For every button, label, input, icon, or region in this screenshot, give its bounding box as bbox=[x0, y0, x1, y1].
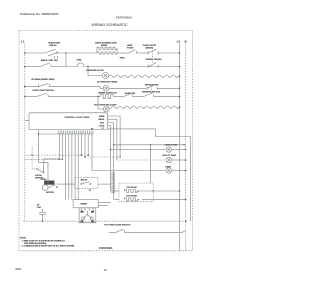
pin stubs connector block bbox=[82, 208, 94, 211]
wire elements box right bottom bbox=[153, 198, 185, 200]
svg-text:CAP: CAP bbox=[37, 206, 42, 209]
switch bake relay bbox=[45, 49, 58, 59]
svg-text:BAKE: BAKE bbox=[99, 115, 105, 118]
component buzzer block bbox=[44, 181, 54, 185]
elements box two resistors bbox=[119, 183, 153, 202]
svg-text:BROIL UNIT SW: BROIL UNIT SW bbox=[41, 60, 59, 62]
switch infinite RF bbox=[147, 85, 157, 90]
switch oven door bbox=[109, 229, 186, 232]
node pin3 N junction bbox=[183, 144, 185, 146]
contact marks connector block bbox=[81, 211, 95, 222]
node wavy2 L2 junction bbox=[179, 106, 181, 108]
wire row2 right bbox=[84, 66, 180, 68]
svg-text:MOTOR: MOTOR bbox=[46, 192, 54, 194]
switch row3 bbox=[39, 83, 50, 87]
svg-text:AT REAR (RIGHT SIDE): AT REAR (RIGHT SIDE) bbox=[31, 78, 54, 81]
op-amp controller EOC box bbox=[29, 113, 108, 130]
wire comb drop left b bbox=[61, 134, 63, 159]
wire row4 left bbox=[25, 95, 37, 97]
wire oven light 1 right bbox=[172, 149, 186, 151]
thermal cutout row2 bbox=[78, 63, 84, 67]
node row2 L1 junction bbox=[24, 66, 26, 68]
wire comb drop right b bbox=[84, 134, 86, 157]
switch limit thermostat bbox=[129, 50, 136, 54]
wire timer out a bbox=[98, 202, 111, 204]
wire comb drop right a bbox=[80, 134, 82, 155]
switch broil relay bbox=[40, 63, 51, 67]
wire vertical feeder bbox=[150, 145, 152, 183]
svg-text:AT REAR (RT SIDE): AT REAR (RT SIDE) bbox=[97, 80, 118, 83]
lamp cooktop light 3 bbox=[166, 168, 171, 173]
svg-text:LOCK: LOCK bbox=[99, 126, 105, 128]
wire comb drop right c bbox=[92, 134, 166, 171]
wire row3 to bus bbox=[157, 87, 179, 89]
wire row4 mid2 bbox=[113, 95, 124, 97]
wire row4 right bbox=[154, 95, 180, 97]
wire elements box left top bbox=[110, 190, 119, 192]
wire bottom dashed bbox=[23, 220, 186, 222]
wire row3 left bbox=[25, 86, 39, 88]
svg-text:LIGHT, OVEN: LIGHT, OVEN bbox=[165, 145, 178, 147]
N bus bbox=[185, 44, 187, 251]
svg-text:6/04: 6/04 bbox=[15, 267, 21, 271]
svg-text:TIMER: TIMER bbox=[80, 203, 87, 205]
svg-text:FEF375ASJ: FEF375ASJ bbox=[116, 15, 133, 19]
wire comb bundle 1 bbox=[65, 134, 67, 200]
wire row1 mid2 bbox=[117, 52, 129, 54]
wire comb bundle 2 bbox=[68, 134, 70, 200]
svg-text:F302304: F302304 bbox=[99, 246, 113, 250]
wire lamp1 drop bbox=[88, 67, 102, 76]
relay box dashed bbox=[75, 177, 98, 188]
wire comb drop right b2 bbox=[87, 134, 89, 155]
wire comb bundle 4 bbox=[74, 134, 76, 200]
svg-text:SW & LT ASSY: SW & LT ASSY bbox=[162, 154, 177, 157]
wire lamp3 to wavy bbox=[109, 107, 111, 109]
svg-text:(BAKE): (BAKE) bbox=[146, 46, 154, 49]
svg-text:2T65: 2T65 bbox=[77, 59, 83, 61]
svg-text:DLB: DLB bbox=[100, 122, 105, 124]
switch oven tstat bbox=[148, 49, 158, 54]
svg-text:L1: L1 bbox=[21, 40, 25, 44]
lamp indicator 2 bbox=[103, 85, 109, 91]
wire row1 mid3 bbox=[136, 52, 148, 54]
wire row1 mid bbox=[58, 52, 98, 54]
node lamp1 drop junction bbox=[87, 66, 88, 67]
node elements right junction 2 bbox=[185, 199, 187, 201]
switch door latch bbox=[36, 159, 44, 173]
wire row4 mid3 bbox=[132, 95, 144, 97]
wire row2 left bbox=[25, 66, 40, 68]
svg-text:UNIT WIRE (AS SHOWN): UNIT WIRE (AS SHOWN) bbox=[24, 242, 46, 245]
lamp oven light 2 bbox=[166, 157, 171, 162]
svg-text:2T60: 2T60 bbox=[120, 57, 126, 59]
svg-text:BOT ELEM: BOT ELEM bbox=[126, 195, 137, 197]
svg-text:L2: L2 bbox=[177, 40, 181, 44]
node wavy1 L2 junction bbox=[179, 75, 181, 77]
wire row1 left bbox=[25, 52, 45, 54]
node dist junction c bbox=[59, 158, 61, 160]
node oven light1 N junction bbox=[185, 149, 187, 151]
wire elements left vertical bbox=[109, 150, 111, 192]
wire lamp3 lead bbox=[98, 96, 103, 109]
link infinite switch poles bbox=[151, 86, 153, 94]
svg-text:2. ELEMENTS ARE A RATED 240V O: 2. ELEMENTS ARE A RATED 240V OR ALL WATT… bbox=[22, 245, 75, 248]
wire drop row1 to row2 bbox=[65, 53, 67, 67]
resistor bake element (two sections) bbox=[97, 47, 117, 54]
connector P2 comb vertical bbox=[111, 172, 114, 194]
wire row3 right bbox=[50, 86, 101, 88]
node row2 L2 junction bbox=[179, 66, 181, 68]
wire comb left lead bbox=[39, 133, 59, 135]
wire inside elements box joins bbox=[136, 191, 153, 199]
node row3 L2 junction bbox=[179, 88, 181, 90]
svg-text:Publication No. 5995419347: Publication No. 5995419347 bbox=[20, 12, 59, 16]
node capacitor bottom junction bbox=[42, 220, 44, 222]
connector block under timer bbox=[79, 208, 96, 223]
node dist junction b bbox=[84, 156, 86, 158]
svg-text:P2 OVEN DOOR SWITCH: P2 OVEN DOOR SWITCH bbox=[104, 224, 130, 226]
motor convection bbox=[42, 162, 55, 190]
svg-text:WIRING SCHEMATIC: WIRING SCHEMATIC bbox=[91, 23, 128, 27]
lamp oven light 1 bbox=[166, 147, 171, 152]
node bottom dashed N junction bbox=[185, 220, 187, 222]
L2 bus bbox=[179, 44, 181, 251]
svg-text:INFINITE SW (RF): INFINITE SW (RF) bbox=[146, 59, 162, 61]
node elements right junction bbox=[179, 190, 181, 192]
wire latch switch feed bbox=[32, 146, 37, 169]
switch row4 bbox=[37, 93, 48, 96]
wire row1 right bbox=[158, 52, 179, 54]
svg-text:INFINITE SW (LF): INFINITE SW (LF) bbox=[142, 91, 160, 93]
svg-text:12: 12 bbox=[104, 268, 108, 272]
node dist junction a bbox=[81, 154, 83, 156]
wire relay inlet bbox=[57, 183, 75, 185]
node elements left junction 2 bbox=[113, 144, 114, 145]
switch surface 1 bbox=[124, 93, 132, 96]
wire comb bundle 5 bbox=[77, 134, 79, 200]
svg-text:RELAY: RELAY bbox=[50, 44, 58, 47]
L1 bus bbox=[24, 44, 26, 222]
node comb left junction bbox=[38, 133, 39, 134]
pin labels EOC bbox=[99, 115, 106, 130]
element wavy top-right surface bbox=[109, 75, 179, 77]
svg-text:WARM ZONE ELE: WARM ZONE ELE bbox=[98, 91, 117, 94]
wire elements left vertical 2 bbox=[113, 145, 115, 200]
switch oven tstat pole 2 on row2 bbox=[148, 51, 158, 69]
switch in relay box bbox=[81, 182, 91, 185]
wire lamp2 lead bbox=[100, 87, 103, 89]
svg-text:CONTROL, ELEC OVEN: CONTROL, ELEC OVEN bbox=[65, 117, 90, 119]
node light1 vertical junction bbox=[150, 149, 151, 150]
node feeder top junction bbox=[150, 144, 151, 145]
wire comb bundle 3 bbox=[71, 134, 73, 200]
wire elements box right top bbox=[153, 190, 179, 192]
wire EOC pin5 bbox=[108, 129, 191, 221]
svg-text:OVEN IND LIGHT: OVEN IND LIGHT bbox=[86, 70, 104, 72]
wire comb drop left a bbox=[44, 134, 59, 159]
resistor warm zone element bbox=[101, 94, 114, 98]
connector P1 comb bbox=[58, 131, 93, 134]
wire row4 mid bbox=[48, 95, 101, 97]
svg-text:N: N bbox=[185, 40, 187, 44]
capacitor latch bbox=[39, 209, 46, 221]
schematic border frame bbox=[19, 31, 193, 251]
note text block bbox=[20, 238, 75, 248]
node row1 drop junction bbox=[65, 52, 66, 53]
svg-text:RELAY: RELAY bbox=[81, 179, 88, 182]
node lamp3 right junction bbox=[185, 170, 187, 172]
wire oven light 2 left bbox=[117, 159, 166, 161]
node pin1 dist junction bbox=[119, 156, 120, 157]
node motor junction bbox=[56, 186, 58, 188]
wire lamp2 right bbox=[109, 87, 146, 89]
resistor bottom element bbox=[124, 198, 139, 201]
wire EOC pin2 bbox=[108, 119, 117, 160]
wire timer out b bbox=[98, 205, 108, 207]
wire EOC pin4 bbox=[108, 126, 111, 150]
wire oven light 1 left bbox=[110, 149, 166, 151]
node lamp3 drop junction bbox=[97, 96, 98, 97]
node row3 L1 junction bbox=[24, 86, 26, 88]
wire EOC bottom lead bbox=[39, 130, 49, 163]
lamp indicator 1 bbox=[102, 72, 108, 78]
wire oven light 2 right bbox=[172, 159, 186, 161]
wire EOC box lead left bbox=[25, 120, 29, 122]
node oven light2 N junction bbox=[185, 159, 187, 161]
node row1 L1 junction bbox=[24, 52, 26, 54]
node row1 L2 junction bbox=[179, 52, 181, 54]
svg-text:OVEN LIGHT SWITCH: OVEN LIGHT SWITCH bbox=[32, 90, 54, 92]
svg-text:2800W: 2800W bbox=[101, 45, 107, 47]
wire EOC pin3 bbox=[108, 123, 185, 145]
page background bbox=[0, 0, 218, 285]
wire relay box out bbox=[98, 183, 111, 185]
lamp indicator 3 bbox=[103, 106, 109, 112]
wire EOC pin1 bbox=[108, 116, 121, 157]
node row4 L2 junction bbox=[179, 96, 181, 98]
wire distribution dashed upper left bbox=[25, 154, 88, 156]
wire elements box left bottom bbox=[114, 198, 119, 200]
svg-text:BROIL: BROIL bbox=[99, 119, 106, 121]
node row4 L1 junction bbox=[24, 96, 26, 98]
wire row2 mid bbox=[51, 66, 78, 68]
svg-text:TOP ELEM: TOP ELEM bbox=[126, 187, 136, 189]
wire lamp3 right bbox=[172, 170, 186, 172]
svg-text:NOTE:: NOTE: bbox=[20, 238, 27, 240]
timer box bbox=[73, 200, 98, 208]
node elements left junction bbox=[110, 149, 111, 150]
svg-text:TSTAT: TSTAT bbox=[127, 46, 134, 49]
element wavy lower surface bbox=[112, 106, 180, 108]
wire wavy1 to bus bbox=[178, 75, 181, 77]
resistor top element bbox=[124, 190, 139, 193]
wire distribution dashed left2 bbox=[25, 158, 63, 160]
switch surface 2 bbox=[144, 93, 154, 96]
wire distribution dashed lower bbox=[85, 156, 120, 158]
